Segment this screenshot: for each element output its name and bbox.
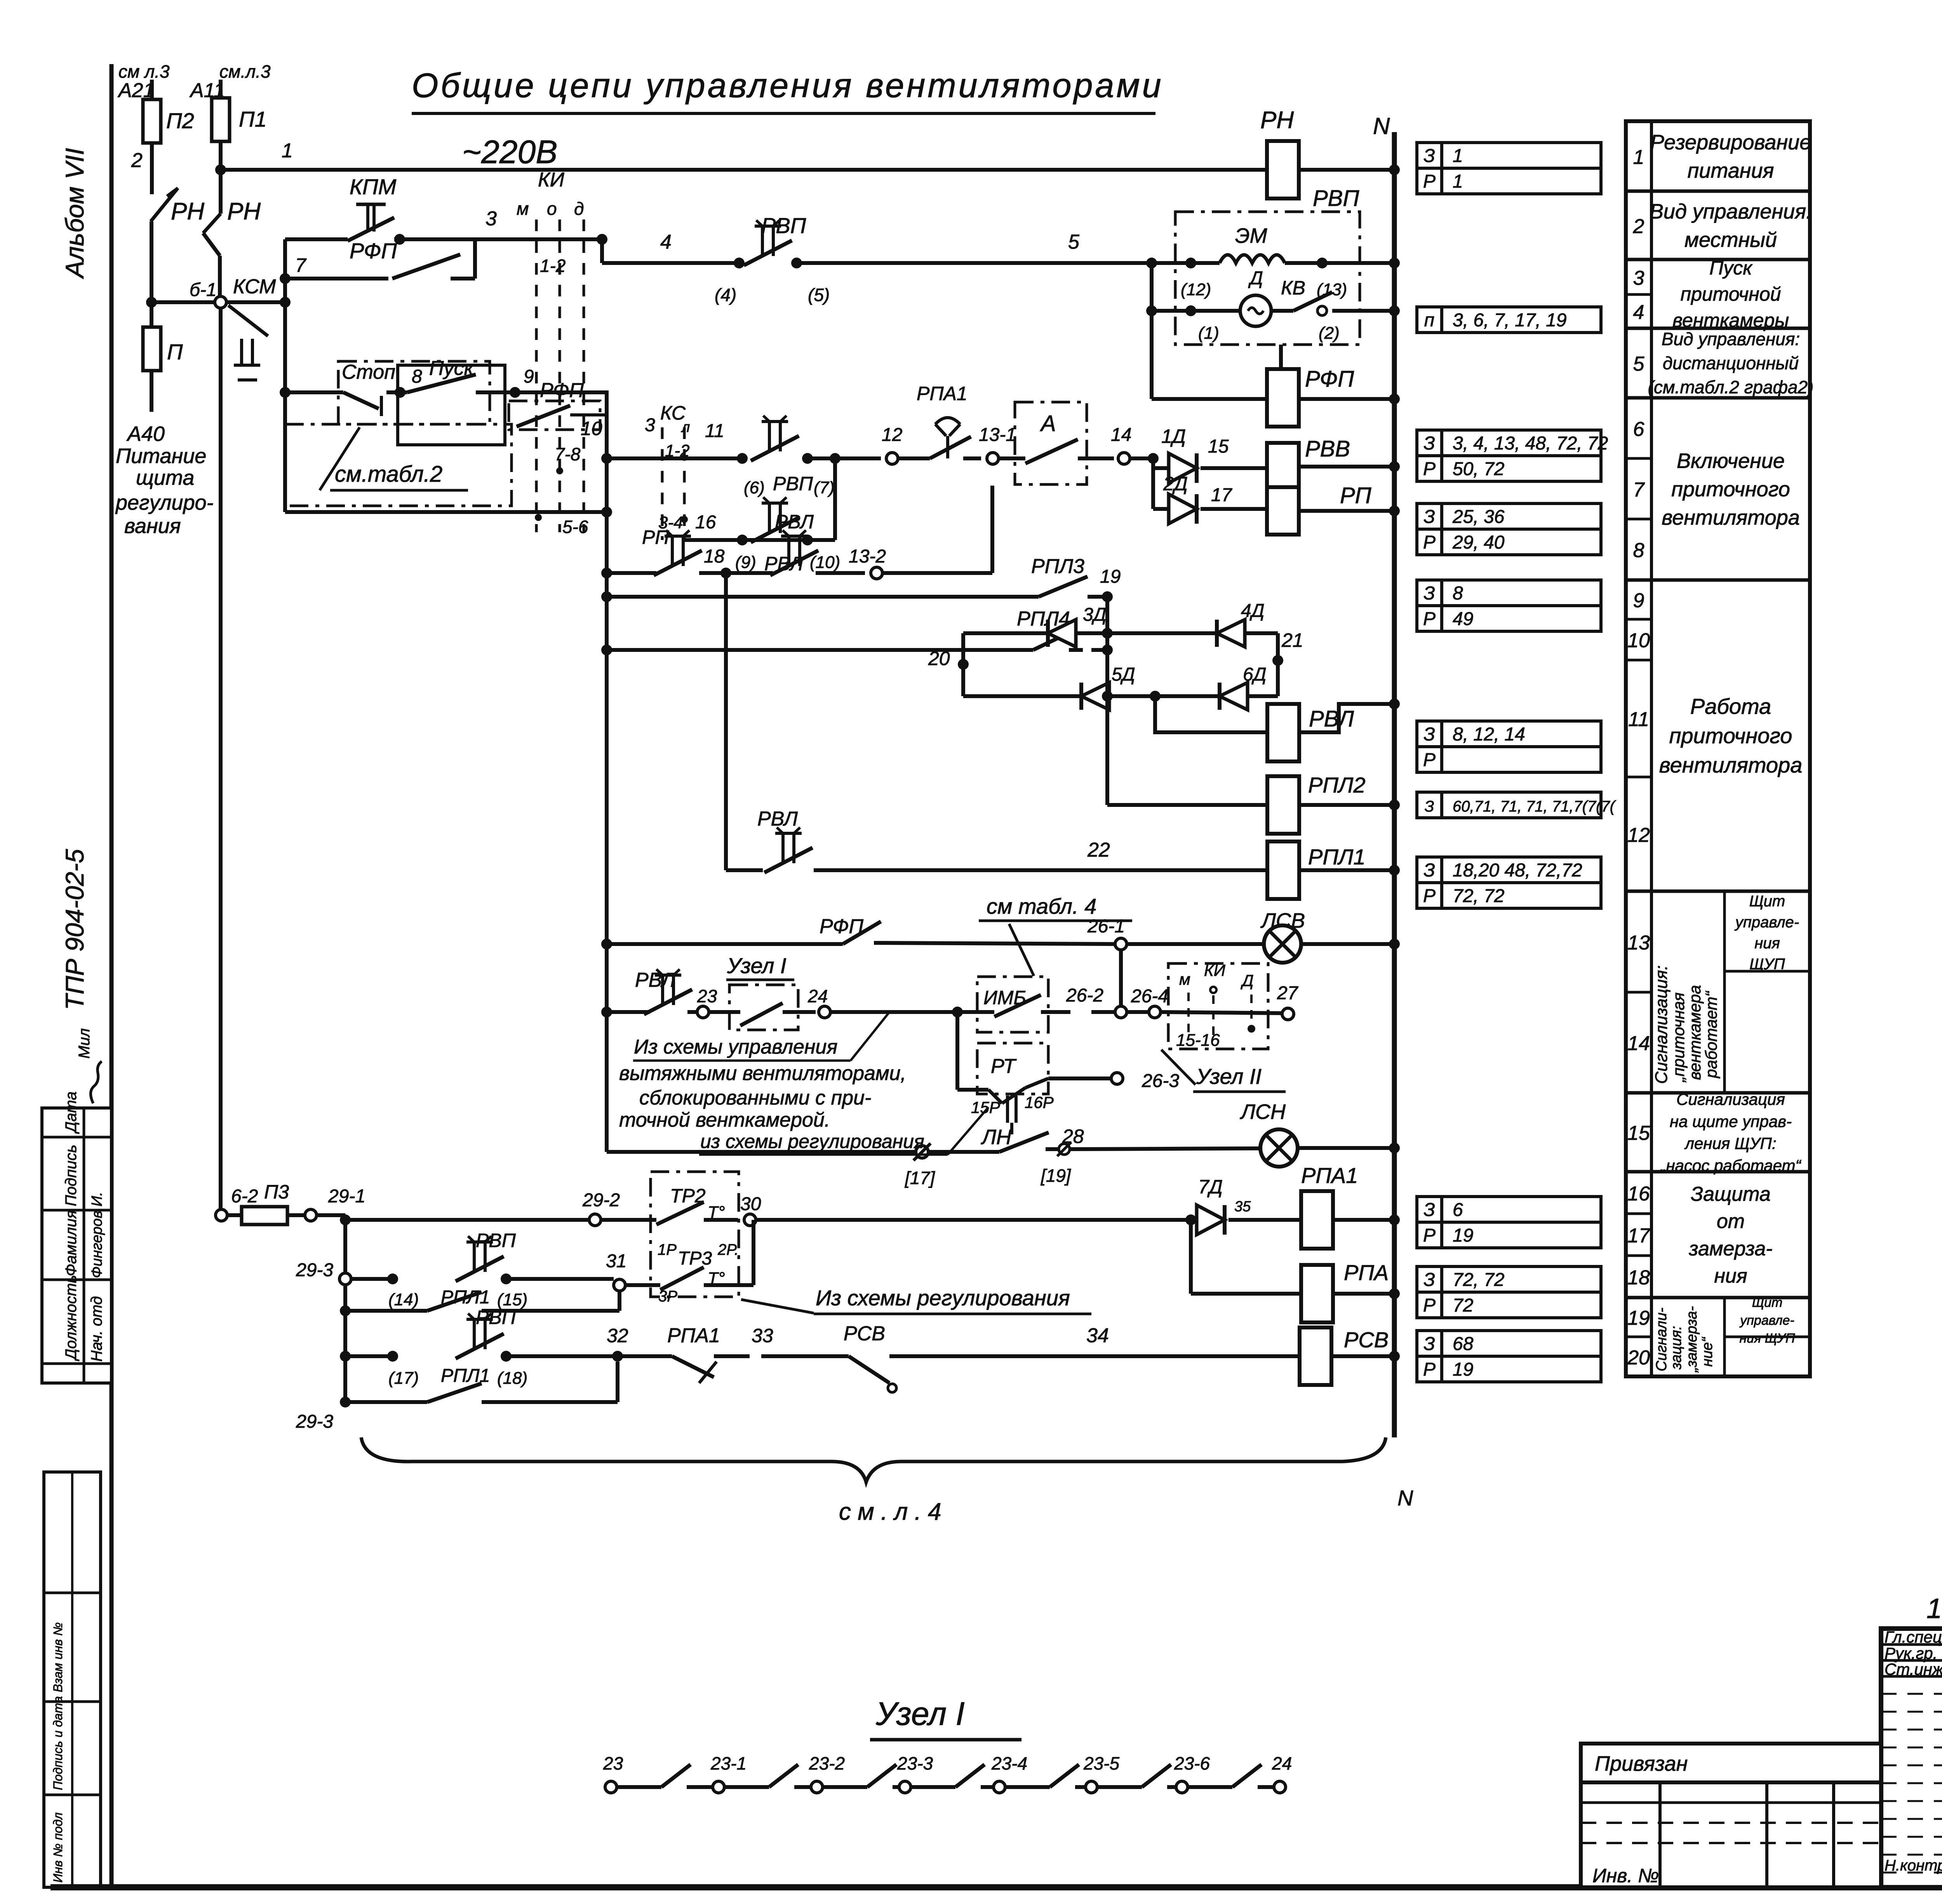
svg-text:19: 19 [1453,1225,1473,1246]
svg-text:Д: Д [1241,971,1254,989]
svg-text:„замерза-: „замерза- [1684,1306,1700,1373]
svg-text:1: 1 [1453,171,1463,192]
svg-text:вентилятора: вентилятора [1662,506,1800,529]
svg-text:72, 72: 72, 72 [1453,886,1504,906]
contact РФП parallel (self-hold) in dash-dot box [338,361,490,424]
svg-text:9: 9 [1633,589,1644,612]
svg-text:2: 2 [131,149,143,172]
wire РН coil to N [1299,168,1394,172]
svg-text:23-4: 23-4 [991,1753,1027,1773]
terminal table РПЛ2 [1417,792,1442,818]
svg-text:Питание: Питание [116,444,206,468]
svg-text:~220В: ~220В [462,134,557,170]
sheet bottom border [50,1884,1942,1890]
svg-text:24: 24 [807,986,828,1006]
svg-text:Подпись: Подпись [63,1144,80,1206]
svg-text:Р: Р [1423,609,1436,629]
svg-text:35: 35 [1234,1198,1251,1215]
svg-text:З: З [1423,1270,1435,1290]
svg-text:3Д: 3Д [1083,604,1107,625]
svg-text:д: д [574,199,584,219]
svg-text:РПЛ3: РПЛ3 [1031,555,1084,578]
svg-text:29-1: 29-1 [328,1186,365,1207]
svg-text:РПА1: РПА1 [1301,1163,1358,1188]
svg-text:точной венткамерой.: точной венткамерой. [619,1109,830,1131]
svg-text:23-1: 23-1 [710,1753,747,1773]
svg-text:РПЛ1: РПЛ1 [441,1366,490,1386]
svg-text:РВП: РВП [1313,186,1359,211]
svg-text:20: 20 [928,648,950,669]
svg-text:на щите управ-: на щите управ- [1670,1112,1792,1131]
svg-text:26-1: 26-1 [1087,916,1125,937]
contact ЛН [999,1132,1049,1152]
svg-text:РПА1: РПА1 [667,1324,720,1347]
wire РВЛ to N [1299,704,1394,732]
svg-text:РФП: РФП [350,239,397,263]
relay coil РФП [1267,369,1299,427]
РФП rung wire [1150,263,1154,399]
svg-text:Вид управления:: Вид управления: [1650,200,1812,223]
relay coil РПА1 [1301,1191,1333,1249]
svg-text:КСМ: КСМ [233,275,276,298]
svg-text:7Д: 7Д [1198,1176,1223,1198]
row ТР2 wire [345,1218,589,1222]
svg-text:приточного: приточного [1669,723,1792,748]
svg-text:РВП: РВП [773,473,813,495]
terminal table РПА1 [1417,1197,1442,1222]
svg-text:Дата: Дата [63,1091,80,1134]
function table rows 13-14 sub-columns [1723,891,1726,1093]
svg-text:З: З [1423,1334,1435,1354]
svg-text:29, 40: 29, 40 [1452,532,1505,553]
svg-text:15-16: 15-16 [1176,1031,1220,1050]
terminal table РФП [1417,430,1442,456]
svg-text:КИ: КИ [538,169,565,191]
svg-text:см.табл.2: см.табл.2 [335,462,442,487]
svg-text:Ст.инж: Ст.инж [1885,1660,1942,1678]
Привязан box [1581,1744,1881,1782]
svg-text:24: 24 [1272,1753,1292,1773]
svg-text:8: 8 [1453,583,1463,604]
svg-text:З: З [1423,433,1435,454]
wire node9 to node10 [515,392,607,458]
wire б-1 down to lower section [219,308,223,1214]
svg-text:18: 18 [704,546,725,567]
svg-text:З: З [1423,146,1435,166]
svg-text:замерза-: замерза- [1688,1237,1772,1260]
lower-left sub table of title block [1581,1782,1881,1887]
left stamp table [42,1108,111,1383]
svg-text:18,20 48, 72,72: 18,20 48, 72,72 [1453,860,1582,881]
svg-text:венткамера: венткамера [1686,985,1704,1080]
svg-text:п: п [1424,310,1434,331]
svg-text:4: 4 [660,231,672,253]
contact РТ dashed box [977,1043,1048,1094]
svg-text:„приточная: „приточная [1669,993,1688,1083]
svg-text:29-3: 29-3 [296,1260,333,1280]
svg-text:26-4: 26-4 [1131,986,1168,1007]
terminal table РВВ [1417,503,1442,529]
terminal table П (motor) [1417,307,1442,333]
svg-text:Альбом VII: Альбом VII [60,148,89,279]
svg-text:венткамеры: венткамеры [1672,310,1789,331]
svg-text:Стоп: Стоп [342,361,395,383]
svg-text:8, 12, 14: 8, 12, 14 [1453,724,1525,745]
svg-text:местный: местный [1684,228,1777,251]
svg-text:РВЛ: РВЛ [1309,706,1354,732]
svg-text:16: 16 [1627,1183,1650,1205]
bus A vertical [283,239,287,512]
svg-text:приточного: приточного [1671,477,1790,501]
svg-text:А40: А40 [126,422,165,446]
svg-text:16: 16 [695,512,716,533]
svg-text:17333- 08: 17333- 08 [1926,1593,1942,1624]
leader см табл.4 to ИМБ [963,979,979,995]
svg-text:6: 6 [1453,1200,1463,1220]
svg-text:23-5: 23-5 [1083,1753,1119,1773]
svg-text:зация:: зация: [1668,1326,1684,1370]
relay coil РП [1267,487,1299,535]
svg-text:5Д: 5Д [1112,664,1135,685]
svg-text:РП: РП [1340,483,1372,508]
svg-text:Гл.спец: Гл.спец [1885,1628,1942,1646]
svg-text:КВ: КВ [1281,277,1305,299]
svg-text:КПМ: КПМ [350,174,397,199]
svg-text:РВВ: РВВ [1305,436,1350,462]
svg-text:о: о [547,199,557,219]
wire A21 lead [150,80,154,99]
svg-text:Фингеров И.: Фингеров И. [89,1192,105,1278]
wire б-1 horizontal [151,300,215,304]
svg-text:Р: Р [1423,459,1436,479]
svg-text:Н.контр: Н.контр [1885,1857,1942,1874]
svg-text:РФП: РФП [1305,366,1354,392]
svg-text:5: 5 [1068,231,1080,253]
wire bus A bottom to bus B [285,510,607,514]
svg-text:ления ЩУП:: ления ЩУП: [1684,1134,1776,1153]
svg-text:14: 14 [1111,425,1131,445]
fuse П1 [212,98,230,141]
terminal table РП [1417,580,1442,606]
svg-text:1Д: 1Д [1161,425,1186,447]
relay coil РВЛ [1267,704,1299,761]
sheet left border [110,64,114,1888]
svg-text:работает“: работает“ [1702,991,1720,1079]
svg-text:(6): (6) [744,478,765,497]
svg-text:7: 7 [295,254,307,276]
svg-text:м: м [517,199,529,219]
svg-text:ТР3: ТР3 [678,1248,712,1269]
svg-text:10: 10 [581,418,602,439]
svg-text:13: 13 [1627,932,1650,954]
svg-text:сблокированными с при-: сблокированными с при- [639,1087,871,1109]
svg-text:31: 31 [606,1251,626,1272]
bridge center column [1105,597,1109,805]
svg-text:РН: РН [171,198,204,225]
svg-text:5-6: 5-6 [562,517,588,537]
wire rung 3 to 4 corner [597,234,607,245]
svg-text:14: 14 [1627,1032,1650,1055]
N bus vertical [1392,132,1397,1437]
svg-text:вания: вания [124,514,181,538]
svg-text:ния: ния [1754,935,1780,952]
svg-text:Узел II: Узел II [1196,1064,1262,1089]
svg-text:П: П [167,340,183,364]
svg-text:N: N [1397,1486,1413,1510]
wire 26-1 down to 26-2 [1119,950,1123,1006]
svg-text:регулиро-: регулиро- [115,491,214,514]
svg-text:Взам инв №: Взам инв № [51,1622,65,1692]
svg-text:ния: ния [1714,1265,1747,1287]
svg-text:8: 8 [1633,539,1644,562]
svg-text:12: 12 [1627,824,1650,847]
svg-text:Узел I: Узел I [875,1695,965,1732]
svg-text:3, 6, 7, 17, 19: 3, 6, 7, 17, 19 [1453,310,1567,331]
svg-text:РН: РН [227,198,261,225]
svg-text:11: 11 [705,421,724,441]
svg-text:15Р: 15Р [971,1098,1000,1117]
svg-text:П2: П2 [166,108,194,133]
svg-text:(18): (18) [497,1369,527,1388]
svg-text:из схемы регулирования: из схемы регулирования [700,1131,924,1152]
svg-text:управле-: управле- [1734,914,1799,931]
svg-text:33: 33 [752,1325,773,1347]
svg-text:Инв № подл: Инв № подл [51,1812,65,1883]
svg-text:РН: РН [1260,107,1294,134]
svg-text:[17]: [17] [905,1168,935,1188]
terminal [19] [1059,1144,1070,1155]
svg-text:Р: Р [1423,1225,1436,1246]
junction dot left branch [146,297,157,308]
svg-text:Р: Р [1423,750,1436,770]
svg-text:Включение: Включение [1677,449,1785,473]
РВП time-relay block (dash-dot) [1175,212,1360,345]
row РВП-31 wire [351,1277,393,1281]
РПЛ1 bypass row 2 wire [340,1397,351,1408]
svg-text:РВЛ: РВЛ [775,511,814,533]
svg-text:Из схемы управления: Из схемы управления [634,1036,837,1058]
lower-left margin boxes [44,1472,101,1887]
svg-text:13-1: 13-1 [979,425,1016,445]
svg-text:(1): (1) [1198,324,1219,343]
svg-text:32: 32 [607,1325,628,1347]
svg-text:50, 72: 50, 72 [1453,459,1504,479]
wire ТР3 up to node 30 [752,1220,755,1285]
РПЛ4 row wire [601,645,612,655]
svg-text:29-3: 29-3 [296,1411,333,1432]
svg-text:1: 1 [282,139,293,162]
svg-text:Вид управления:: Вид управления: [1662,329,1800,349]
bridge output drop to РВЛ [1155,696,1267,732]
svg-text:4: 4 [1633,301,1644,324]
svg-text:18: 18 [1627,1266,1650,1289]
relay coil РСВ [1300,1327,1331,1385]
wire П1 to line 1 [219,141,223,214]
svg-text:см табл. 4: см табл. 4 [987,894,1096,918]
svg-text:(17): (17) [388,1369,419,1388]
svg-text:10: 10 [1627,629,1650,652]
svg-text:Пуск: Пуск [1709,257,1753,279]
svg-text:З: З [1425,798,1434,815]
wire junction down to РТ [955,1012,959,1090]
svg-text:30: 30 [740,1194,761,1214]
svg-text:Нач. отд: Нач. отд [88,1296,105,1362]
Пуск enclosure box [398,365,505,445]
svg-text:(см.табл.2 графа2): (см.табл.2 графа2) [1648,377,1814,397]
svg-text:1: 1 [1453,146,1463,166]
row 18 wire [601,568,612,578]
svg-text:Щит: Щит [1752,1295,1783,1310]
svg-text:72, 72: 72, 72 [1453,1270,1504,1290]
svg-text:см.л.3: см.л.3 [219,61,271,82]
function table number column [1650,121,1653,1376]
svg-text:Подпись и дата: Подпись и дата [51,1696,65,1790]
svg-text:щита: щита [136,466,194,490]
fuse П2 [143,99,161,143]
Узел I row wire [601,1007,612,1017]
svg-text:см л.3: см л.3 [118,61,170,82]
wire ЭМ block to РФП coil [1279,345,1283,369]
svg-text:„насос работает“: „насос работает“ [1660,1156,1802,1174]
svg-text:ЭМ: ЭМ [1235,224,1267,247]
svg-text:1: 1 [1633,146,1644,169]
terminal table РПА [1417,1266,1442,1292]
svg-text:П1: П1 [239,107,267,131]
svg-text:9: 9 [524,366,534,387]
svg-text:ния ЩУП: ния ЩУП [1740,1331,1795,1346]
function table rows 19-20 sub-columns [1723,1298,1726,1376]
svg-text:Сигнализация:: Сигнализация: [1652,965,1671,1084]
svg-text:26-3: 26-3 [1142,1071,1179,1091]
title block outer frame [1881,1629,1942,1887]
svg-text:Р: Р [1423,171,1436,192]
row 32 wire [340,1351,351,1362]
wire to diode 2Д [1151,468,1155,509]
svg-text:ЛСН: ЛСН [1240,1100,1286,1124]
relay coil РПЛ1 [1267,841,1299,899]
wire bypass up to rung 3 [473,239,477,279]
svg-text:вентилятора: вентилятора [1659,753,1803,777]
node dot on rung 3 [394,234,405,245]
svg-text:20: 20 [1627,1347,1650,1369]
svg-text:З: З [1423,507,1435,527]
svg-text:управле-: управле- [1739,1313,1794,1328]
wire below П2 [150,143,154,194]
svg-text:Сигнали-: Сигнали- [1653,1308,1670,1371]
svg-text:11: 11 [1628,708,1649,731]
svg-text:Должность: Должность [63,1275,80,1361]
svg-text:РВЛ: РВЛ [635,969,675,991]
svg-text:Работа: Работа [1690,694,1771,719]
svg-text:8: 8 [412,366,422,387]
svg-text:1Р: 1Р [658,1241,677,1258]
signature rows [1881,1643,1942,1646]
svg-text:Защита: Защита [1691,1183,1771,1205]
svg-text:(5): (5) [808,285,830,305]
wire to diode 1Д [1151,458,1155,468]
svg-text:15: 15 [1627,1122,1650,1144]
relay coil РВВ [1267,443,1299,490]
svg-text:23-3: 23-3 [897,1753,933,1773]
svg-text:25, 36: 25, 36 [1452,507,1505,527]
svg-text:3: 3 [486,207,497,230]
svg-text:72: 72 [1453,1295,1473,1316]
svg-text:27: 27 [1277,983,1299,1003]
svg-text:Р: Р [1423,1359,1436,1380]
svg-text:23: 23 [603,1753,623,1773]
relay coil РПА [1189,1220,1193,1294]
wire 13-2 up to А box [990,486,994,573]
svg-text:68: 68 [1453,1334,1474,1354]
wire РФП bypass [280,273,291,284]
fuse П (lower left) [150,302,153,327]
svg-text:2Р.: 2Р. [717,1241,739,1258]
svg-text:Рук.гр.: Рук.гр. [1885,1644,1937,1662]
svg-text:(2): (2) [1319,324,1340,343]
brace см.л.4 [361,1437,1386,1482]
terminal ⌀ [17] [916,1146,928,1158]
РПЛ2 row wire [1107,803,1267,807]
ЛСВ row wire [601,939,612,949]
svg-text:вытяжными вентиляторами,: вытяжными вентиляторами, [619,1062,906,1085]
svg-text:23-2: 23-2 [809,1753,845,1773]
rung 3 wire [285,237,348,241]
svg-text:КИ: КИ [1204,961,1226,979]
svg-text:N: N [1373,113,1390,139]
function table frame [1626,121,1810,1376]
svg-text:15: 15 [1208,436,1229,457]
svg-text:Д: Д [1248,268,1263,289]
contact А (emergency) dash-dot box [1015,402,1087,484]
svg-text:Общие цепи управления венти: Общие цепи управления вентиляторами [412,66,1164,105]
КС row wire [607,456,742,460]
svg-text:ние“: ние“ [1699,1336,1716,1367]
svg-text:З: З [1423,1200,1435,1220]
wire line 1 [215,164,226,175]
contact ИМБ dashed box [977,977,1048,1032]
svg-text:26-2: 26-2 [1066,985,1103,1006]
svg-text:1-2: 1-2 [540,256,566,276]
svg-text:7: 7 [1633,479,1645,501]
ТР2/ТР3 dash-dot box [651,1172,739,1297]
node 8 [395,387,405,398]
svg-text:ЛН: ЛН [981,1125,1012,1149]
svg-text:2Д: 2Д [1163,473,1188,495]
РПЛ1 row 22 wire [726,868,763,872]
timed contact РВП (6)(7) [768,422,771,451]
svg-text:(9): (9) [735,553,756,572]
svg-text:(7): (7) [814,478,835,497]
svg-text:РТ: РТ [991,1055,1017,1078]
wire vertical x1869 down [724,573,728,870]
bus B vertical [605,458,609,1152]
wire A11 lead [219,80,223,98]
terminal table РСВ [1417,1331,1442,1356]
svg-text:60,71, 71, 71, 71,7(7(7(: 60,71, 71, 71, 71,7(7(7( [1453,798,1617,815]
svg-text:приточной: приточной [1681,283,1781,305]
svg-text:2: 2 [1633,215,1644,238]
svg-text:РВП: РВП [476,1306,516,1328]
svg-text:13-2: 13-2 [849,546,886,567]
wire row16 up [833,458,837,540]
node 9 [510,387,520,398]
svg-text:З: З [1423,860,1435,881]
svg-text:Узел I: Узел I [727,953,787,978]
svg-text:3, 4, 13, 48, 72, 72: 3, 4, 13, 48, 72, 72 [1453,433,1608,454]
svg-text:м: м [1179,970,1190,988]
selector м КИ Д dashed box (Узел II) [1168,963,1268,1049]
svg-text:17: 17 [1211,485,1233,505]
